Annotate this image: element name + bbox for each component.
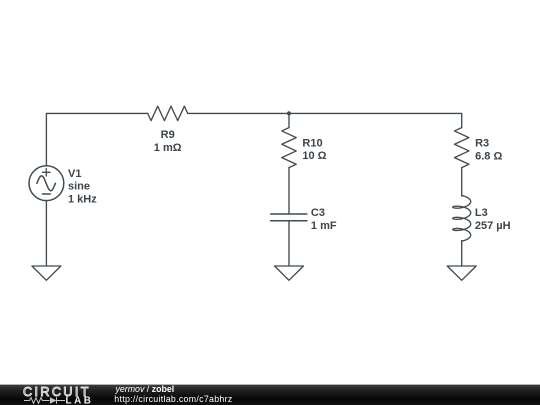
svg-text:L3: L3 [475,207,488,219]
svg-text:yermov / zobel: yermov / zobel [115,384,175,394]
svg-text:LAB: LAB [66,395,94,405]
svg-text:R9: R9 [161,129,175,141]
V1 sine waveform [37,176,56,191]
wire junction down [288,113,290,127]
ground middle [275,266,304,280]
svg-text:1 kHz: 1 kHz [68,193,97,205]
wire R10 to C3 [288,168,290,214]
resistor R9 [148,106,188,120]
V1 plus sign [43,169,51,176]
wire C3 to ground [288,221,290,266]
wire L3 to ground [461,241,463,266]
wire top right segment [188,113,462,127]
ground left [32,266,61,280]
inductor L3 [453,196,471,242]
capacitor C3 [271,214,307,221]
wire R3 to L3 [461,168,463,196]
resistor R3 [455,128,469,168]
logo resistor-diode symbol [24,397,65,403]
wire V1 to ground [45,201,47,266]
svg-text:1 mΩ: 1 mΩ [154,142,182,154]
svg-text:R10: R10 [302,137,322,149]
V1 minus sign [43,193,51,195]
svg-text:1 mF: 1 mF [311,220,337,232]
svg-text:6.8 Ω: 6.8 Ω [475,150,502,162]
voltage source V1 [29,166,64,201]
svg-text:10 Ω: 10 Ω [302,150,326,162]
svg-text:257 µH: 257 µH [475,220,511,232]
svg-text:sine: sine [68,181,90,193]
resistor R10 [282,128,296,168]
wire top horizontal [46,113,147,165]
svg-text:C3: C3 [311,207,325,219]
node junction [287,111,291,115]
ground right [447,266,476,280]
svg-text:R3: R3 [475,138,489,150]
svg-text:V1: V1 [68,168,81,180]
svg-text:http://circuitlab.com/c7abhrz: http://circuitlab.com/c7abhrz [114,394,232,404]
